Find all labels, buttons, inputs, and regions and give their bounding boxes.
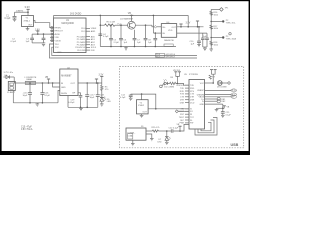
wire rail to U1 [53, 15, 55, 18]
net label oval USBDM [231, 93, 237, 96]
svg-text:RTS: RTS [180, 94, 185, 96]
wire S1 pin2 [146, 134, 152, 139]
capacitor C1 [13, 12, 17, 19]
wire rail end down [187, 15, 189, 26]
capacitor C11 [205, 33, 209, 47]
svg-text:TWS_SCL: TWS_SCL [226, 22, 237, 24]
wire S1 out [146, 130, 152, 132]
wire xtal top [131, 94, 156, 109]
svg-text:MAXQ2000: MAXQ2000 [62, 22, 75, 25]
svg-text:TXD: TXD [190, 85, 195, 87]
U1 left pin names [55, 27, 64, 53]
svg-text:0.1µF: 0.1µF [100, 97, 106, 99]
svg-text:OUT: OUT [28, 24, 33, 26]
wire TP row1 [211, 20, 222, 22]
power flag 3.3V (ref) [196, 21, 199, 27]
svg-text:C15: 47µF: C15: 47µF [21, 126, 32, 128]
svg-text:XTAL1: XTAL1 [24, 20, 31, 23]
svg-text:TEST: TEST [179, 117, 185, 119]
svg-text:0.1µF: 0.1µF [11, 41, 17, 43]
test rail right [210, 9, 212, 49]
ground (D7) [165, 142, 169, 144]
svg-text:XP D+: XP D+ [231, 90, 238, 92]
svg-text:DCD: DCD [190, 102, 195, 104]
wire R21 right [159, 130, 172, 132]
svg-text:BEAD: BEAD [27, 78, 33, 81]
regulator U2 [60, 69, 78, 96]
svg-text:P6.1/DIN: P6.1/DIN [77, 50, 86, 52]
svg-text:P5.3/AD3: P5.3/AD3 [77, 44, 87, 47]
node diamond in+ [154, 26, 157, 29]
U1 right pin names [75, 28, 86, 52]
wire U4 in- [153, 32, 161, 34]
wire C11 C12 tie [203, 46, 207, 48]
wire VB cap branch [222, 104, 224, 108]
capacitor C5 [109, 24, 113, 46]
bus wire upper [53, 55, 197, 57]
ground (Y1) [26, 27, 30, 31]
svg-text:D6 COMM: D6 COMM [164, 86, 174, 88]
svg-text:XO: XO [190, 111, 193, 113]
svg-text:XTAL2: XTAL2 [138, 104, 145, 107]
ground (Y2) [140, 114, 144, 118]
svg-text:DTR: DTR [180, 100, 185, 102]
oscillator Y1 [22, 16, 34, 27]
svg-text:XOUT: XOUT [178, 111, 184, 113]
ground (C1) [13, 19, 17, 21]
svg-text:DIN: DIN [91, 50, 95, 52]
vertical rail VDDIO [99, 15, 101, 46]
svg-text:TWS_SDA: TWS_SDA [226, 38, 237, 41]
op-amp U4 [161, 24, 176, 38]
svg-text:GPIO/P0.7: GPIO/P0.7 [166, 57, 177, 59]
svg-text:1.8V: 1.8V [35, 28, 40, 31]
svg-text:USBDP: USBDP [197, 90, 205, 92]
svg-text:C22 0.1µF: C22 0.1µF [169, 127, 179, 129]
svg-text:DOWN–: DOWN– [128, 133, 137, 135]
svg-text:VB 3V3: VB 3V3 [173, 70, 181, 72]
svg-text:RTS: RTS [190, 91, 195, 93]
wire loop2 [198, 120, 214, 133]
svg-text:0.1µF: 0.1µF [120, 97, 126, 99]
svg-text:0.1µF: 0.1µF [45, 95, 51, 97]
dashed USB section box [120, 67, 244, 148]
net label oval VBUS [231, 95, 237, 98]
svg-text:MAX4230: MAX4230 [164, 39, 174, 42]
svg-text:3.3V: 3.3V [186, 23, 191, 25]
switch S1 box [126, 128, 146, 140]
svg-text:DSR: DSR [190, 100, 195, 102]
capacitor C7 [133, 30, 137, 47]
jumper bead row2 [217, 100, 220, 103]
wire U1 pin to bus lower [50, 44, 54, 58]
wire gnd tie [32, 42, 43, 44]
svg-text:TXD: TXD [180, 88, 185, 90]
ground (C14) [129, 98, 133, 100]
svg-text:GND: GND [61, 87, 66, 89]
junction VB [177, 83, 179, 85]
svg-text:R3 1.0M: R3 1.0M [107, 22, 115, 24]
svg-text:10µF: 10µF [23, 95, 29, 97]
ferrite bead L1 [25, 81, 35, 84]
svg-text:RXD: RXD [180, 91, 185, 93]
power flag 4.5V [47, 79, 50, 83]
ground (S1) [131, 144, 135, 146]
svg-text:0.8V 70mA: 0.8V 70mA [21, 128, 33, 131]
svg-text:0.1µF: 0.1µF [103, 36, 109, 38]
svg-text:IN-: IN- [162, 33, 165, 35]
svg-text:CTS: CTS [180, 97, 185, 99]
svg-text:VCC: VCC [200, 83, 205, 85]
top rail wire [54, 14, 189, 16]
wire J1 gnd [12, 91, 14, 103]
svg-text:TDO: TDO [55, 44, 60, 46]
resistor R17 [210, 25, 213, 30]
LED D5 [100, 97, 106, 104]
node TP row1 [222, 20, 224, 22]
wire main VIN [14, 82, 25, 84]
capacitor C15 [28, 82, 32, 103]
resistor R16 [210, 11, 213, 16]
capacitor C2 [30, 34, 34, 43]
LED D6 [162, 79, 167, 86]
svg-text:P5.0/AD0: P5.0/AD0 [77, 35, 87, 38]
resistor R9 [209, 75, 211, 79]
svg-text:P5.2/AD2: P5.2/AD2 [77, 41, 87, 44]
wire U4 pin3 [177, 32, 207, 34]
power flag VB (USB right) [210, 70, 217, 84]
test point circle P4 [229, 33, 231, 35]
svg-text:VREF: VREF [91, 28, 97, 30]
svg-text:RXD: RXD [190, 88, 195, 90]
capacitor C10 [197, 26, 201, 45]
oscillator Y2 [137, 100, 149, 114]
capacitor C6 [119, 24, 123, 46]
svg-text:GND: GND [200, 104, 205, 106]
svg-text:SLP: SLP [180, 120, 184, 122]
svg-text:3.3V: 3.3V [25, 5, 31, 9]
capacitor C14 [129, 94, 133, 98]
LED D7 [165, 130, 171, 142]
U1 right pin stubs [86, 28, 90, 50]
svg-text:3.7V LiPo: 3.7V LiPo [4, 72, 14, 74]
capacitor C4 [98, 33, 102, 36]
svg-text:2.2µF: 2.2µF [114, 42, 120, 44]
wire Q1 source to rail [131, 15, 133, 21]
svg-text:USB: USB [231, 143, 239, 147]
capacitor C17 [85, 83, 89, 107]
svg-text:SHDN: SHDN [61, 93, 67, 95]
power flag 3.3V (top-left) [27, 9, 30, 15]
U5 left net labels [176, 85, 185, 125]
resistor R21 [152, 130, 158, 132]
no-connect diamond node [175, 110, 178, 113]
wire to pin [50, 33, 53, 35]
svg-text:MAX8887: MAX8887 [61, 74, 72, 77]
power flag 3.3V (LED) [100, 76, 103, 83]
jumper bead row1 [217, 97, 220, 100]
capacitor C22 (series) [170, 129, 172, 132]
svg-text:TCK: TCK [55, 47, 60, 49]
ground (U2 bus) [79, 107, 83, 110]
svg-text:D-: D- [202, 101, 204, 103]
svg-text:HFXOUT: HFXOUT [55, 31, 64, 33]
bus wire lower [50, 57, 197, 59]
svg-text:DTR: DTR [190, 97, 195, 99]
power flag 1.8V [36, 31, 39, 34]
power flag VBATT [130, 14, 133, 16]
border frame [0, 0, 250, 155]
svg-text:DSR: DSR [180, 102, 185, 104]
ground bus left [13, 102, 58, 104]
ground diamond (D8) [228, 82, 231, 85]
power flag VB (cap) [223, 106, 226, 109]
svg-text:OUT: OUT [172, 27, 177, 29]
svg-text:0.01µF: 0.01µF [68, 102, 75, 104]
svg-text:LED: LED [158, 142, 163, 144]
capacitor C25 [221, 108, 225, 115]
U5 left pin names inside [190, 85, 195, 125]
svg-text:OUT: OUT [71, 83, 76, 85]
U1 left pins [50, 30, 53, 42]
wire loop1 (U5 bottom) [195, 118, 217, 136]
power flag VB (S1 pullup) [178, 126, 181, 131]
wire LED branch [101, 83, 103, 85]
wire U2 out [78, 82, 102, 84]
ground (left bus) [36, 103, 40, 106]
wire XOUT [178, 110, 189, 112]
wire AVDD [32, 33, 50, 35]
resistor R5 [101, 85, 103, 97]
power flag 3.3V (U2 out) [95, 79, 98, 83]
wire drain down [152, 25, 154, 27]
wire Q1 drain [135, 24, 152, 26]
ground (C11) [203, 47, 207, 51]
wire U4 out [177, 26, 204, 28]
svg-text:0.1µF: 0.1µF [226, 114, 232, 116]
ground (mid bus) [124, 47, 128, 51]
svg-text:P-ch: P-ch [118, 23, 122, 25]
wire feedback [152, 15, 154, 33]
wire Y2 out [148, 108, 189, 110]
U1 right net labels [91, 28, 97, 52]
svg-text:VB: VB [128, 13, 132, 15]
wire U2 gnd [58, 91, 60, 103]
LED D8 [217, 81, 227, 86]
svg-text:Q1 MAX8867: Q1 MAX8867 [120, 18, 134, 21]
capacitor C16 [40, 83, 44, 103]
wire U1 pin to bus upper [52, 47, 54, 55]
terminal circle (LED row) [160, 85, 163, 88]
wire xtal stub [141, 94, 143, 100]
resistor R18 [210, 41, 213, 46]
wire C22 right [173, 124, 189, 131]
svg-text:3.3V: 3.3V [99, 74, 104, 76]
capacitor C3 [42, 34, 46, 43]
U5 right pin names [197, 83, 205, 106]
power flag VBUS (USB) [174, 72, 181, 84]
ground bus mid [100, 46, 176, 48]
wire U2 bp [78, 93, 81, 96]
wire bead out [36, 82, 60, 84]
ground bus U2 [68, 106, 98, 108]
ground (rail) [209, 49, 213, 51]
wire to U5 [177, 83, 189, 85]
svg-text:PWE: PWE [179, 123, 184, 125]
wire loop3 [201, 122, 211, 131]
svg-text:LOAD: LOAD [128, 134, 134, 137]
capacitor C9 [153, 32, 157, 46]
capacitor C19 [79, 96, 83, 108]
U5 right pin stubs [205, 83, 232, 104]
svg-text:VB: VB [45, 77, 49, 79]
ground (C2 C3) [42, 43, 46, 47]
net label oval USBDP [231, 89, 237, 92]
wire node XTAL supply [15, 11, 29, 13]
wire to TP diamond [211, 8, 219, 10]
svg-text:GND: GND [57, 52, 62, 54]
label U4 pins [162, 27, 176, 35]
wire U2 shdn [53, 83, 60, 87]
svg-text:VDD: VDD [168, 30, 173, 32]
wire TP row2 [211, 37, 222, 39]
svg-text:D8 COMM: D8 COMM [217, 86, 227, 88]
resistor R3 [100, 24, 127, 27]
ground (S1 pin2) [150, 139, 154, 141]
junction [27, 11, 29, 13]
svg-text:LED: LED [107, 101, 112, 103]
svg-text:10µF: 10µF [90, 97, 96, 99]
capacitor C12 [201, 33, 205, 47]
test point TP1 diamond [220, 8, 224, 12]
svg-text:P5.1/AD1: P5.1/AD1 [77, 38, 87, 41]
svg-text:SCLK: SCLK [91, 47, 97, 49]
wire Y1 out to U1 [33, 21, 53, 29]
rail junction [100, 15, 102, 17]
ground (C25) [221, 115, 225, 117]
ground (D5) [100, 104, 104, 106]
capacitor C8 [144, 25, 148, 46]
svg-text:J1-BATT: J1-BATT [7, 91, 16, 94]
ground (U5 right) [215, 108, 219, 112]
transistor Q1 [128, 21, 136, 29]
ground (C10) [197, 45, 201, 47]
svg-text:3V3 DVDD: 3V3 DVDD [70, 14, 82, 16]
power flag 3.3V (U4) [179, 24, 182, 27]
svg-text:HFXIN: HFXIN [55, 27, 62, 29]
net label box P0 upper [156, 53, 165, 57]
diode D1 [4, 75, 15, 78]
USB interface U5 [189, 80, 205, 130]
svg-text:P6.0/SCLK: P6.0/SCLK [75, 47, 86, 49]
svg-text:24MHZ: 24MHZ [16, 11, 24, 13]
wire gnd row [217, 107, 225, 109]
svg-text:AVDD: AVDD [55, 33, 61, 36]
svg-text:PW: PW [190, 123, 193, 125]
battery connector J1 [8, 82, 15, 91]
wire VIN [13, 77, 15, 83]
U5 left pin stubs [185, 85, 189, 123]
wire U4 in+ [157, 26, 162, 28]
MCU U1 [54, 18, 86, 53]
svg-text:VDDIO: VDDIO [55, 40, 62, 42]
svg-text:3V3OUT: 3V3OUT [176, 85, 185, 87]
net label box AVDD [164, 44, 173, 46]
wire U2 gnd pin down [67, 96, 69, 108]
wire S1 gnd [132, 140, 134, 143]
node TP row2 [222, 36, 224, 38]
resistor R8 [167, 82, 177, 84]
capacitor C18 [96, 82, 100, 107]
svg-text:VDD: VDD [55, 37, 60, 39]
svg-text:CTS: CTS [190, 94, 195, 96]
svg-text:0.1µF: 0.1µF [5, 18, 12, 20]
svg-text:1µF: 1µF [26, 41, 30, 43]
svg-text:FT232RL: FT232RL [189, 74, 199, 76]
